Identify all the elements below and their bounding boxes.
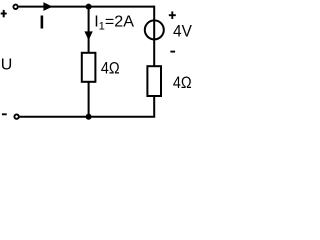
voltage source U1 4V: [145, 20, 164, 39]
resistor R2 4ohm (right): [147, 66, 161, 96]
terminal (bottom-left, open circle): [14, 114, 18, 118]
wire (right branch, resistor to bottom corner): [153, 96, 155, 117]
current arrow I1 (down left branch): [84, 31, 92, 40]
wire (top horizontal): [19, 6, 155, 8]
svg-text:4V: 4V: [173, 22, 192, 41]
label - (source negative): [170, 51, 175, 53]
label + (source positive): [169, 11, 176, 19]
svg-text:I: I: [39, 13, 44, 33]
svg-text:U: U: [1, 57, 13, 74]
svg-text:4Ω: 4Ω: [101, 59, 120, 78]
label - (port U negative): [2, 113, 7, 115]
svg-text:4Ω: 4Ω: [173, 73, 192, 92]
wire (bottom horizontal): [20, 116, 156, 118]
wire (left branch, resistor to bottom): [88, 82, 90, 117]
terminal (top-left, open circle): [13, 5, 17, 9]
resistor R1 4ohm (left): [82, 53, 96, 82]
current arrow I (on top wire): [43, 2, 52, 11]
node (bottom junction dot): [86, 114, 92, 120]
svg-text:I1=2A: I1=2A: [94, 13, 134, 33]
wire (left branch, junction to resistor): [88, 7, 90, 53]
wire (top-right corner down to source): [153, 6, 155, 67]
label + (port U positive): [1, 10, 7, 17]
node (top junction dot): [86, 4, 92, 10]
